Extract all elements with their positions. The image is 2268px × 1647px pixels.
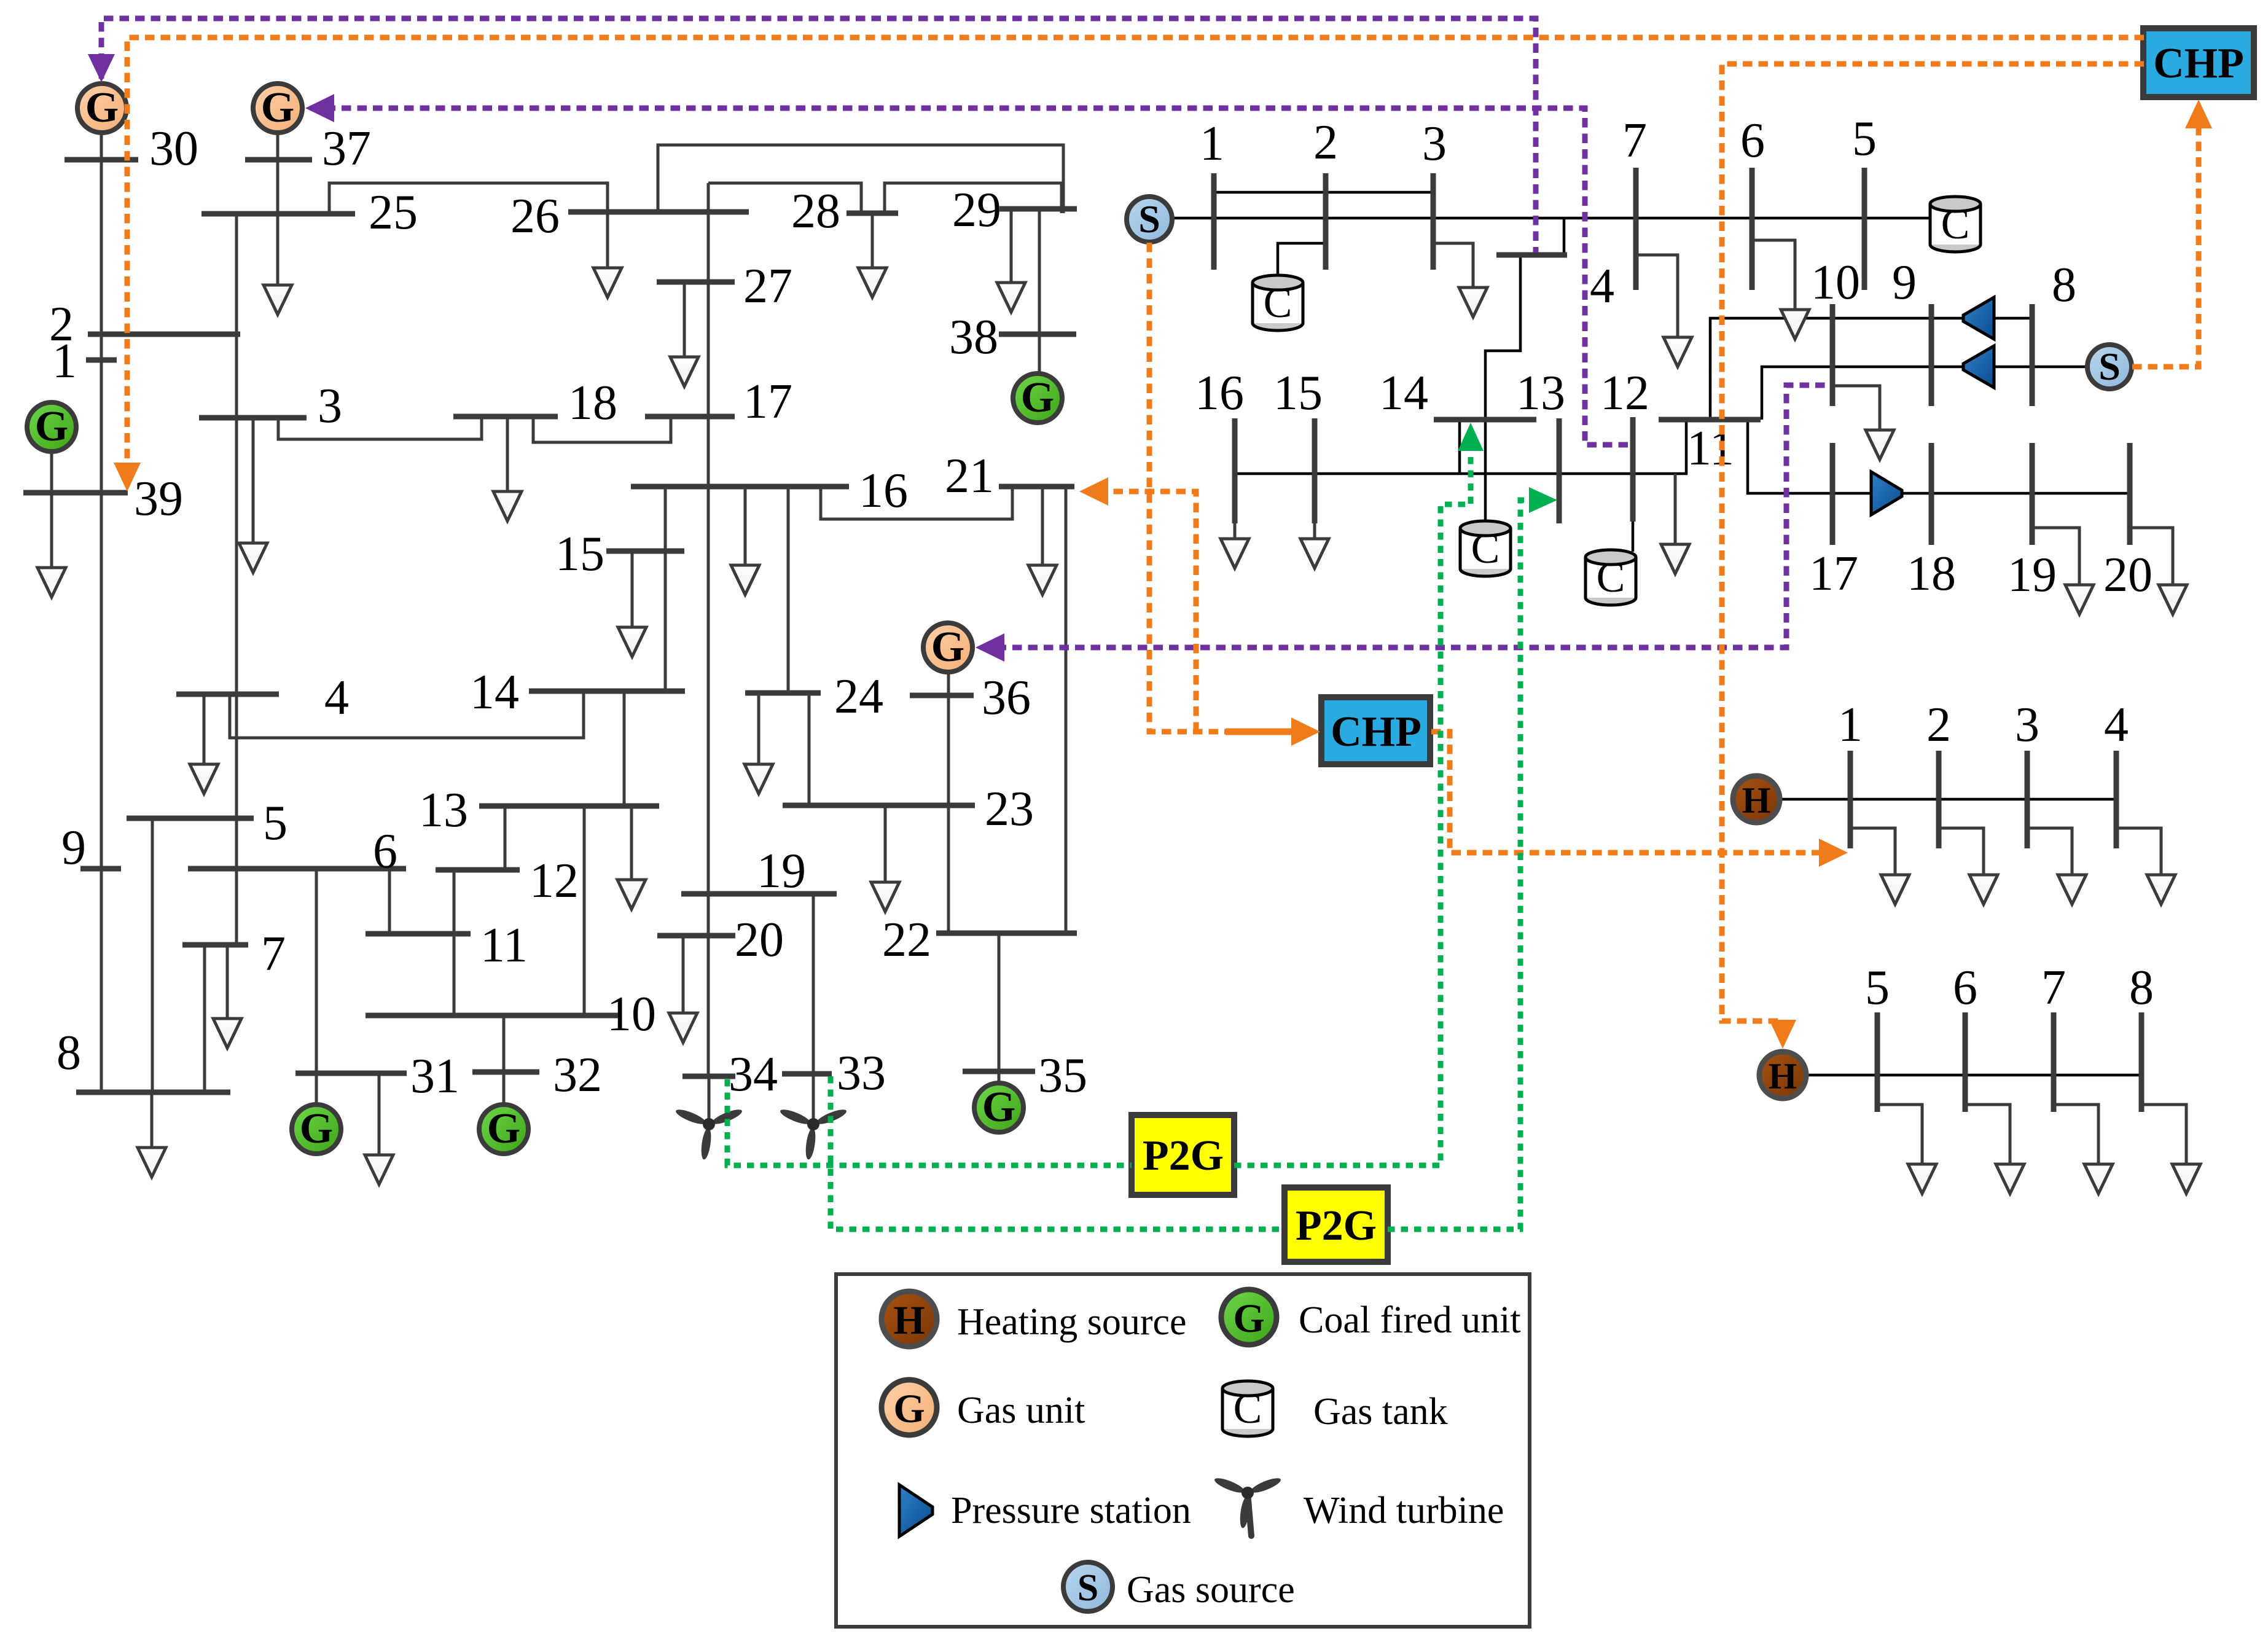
svg-text:S: S — [1138, 197, 1160, 241]
svg-text:18: 18 — [1907, 547, 1956, 601]
wire 16-15-14 — [664, 487, 667, 691]
bus 6 — [188, 866, 406, 872]
purple arrowhead into G36 — [976, 633, 1004, 662]
svg-text:4: 4 — [2104, 698, 2129, 752]
gas tank below node 12 — [1586, 550, 1636, 605]
gas source S1 — [1127, 197, 1172, 242]
wire 6-31 — [315, 869, 318, 1073]
gas node 19 — [2030, 443, 2035, 545]
gas load stub node 6 — [1752, 240, 1795, 310]
load arrowhead bus 15 — [618, 627, 646, 657]
svg-text:35: 35 — [1038, 1049, 1087, 1103]
svg-text:6: 6 — [1953, 961, 1977, 1015]
bus 19 — [681, 891, 837, 897]
CHP box top right — [2143, 28, 2254, 97]
bus 38 — [999, 332, 1076, 337]
purple link gas12 to G37 — [310, 108, 1630, 445]
svg-text:7: 7 — [261, 927, 286, 981]
gas tank right of node 5 — [1930, 197, 1981, 252]
svg-text:G: G — [487, 1105, 520, 1152]
gas load arrowhead node 3 — [1459, 288, 1487, 317]
purple arrowhead into G37 — [305, 94, 334, 122]
gas pipeline 16-15-13-12-11 — [1235, 420, 1686, 474]
wire 35-G35 — [998, 1071, 1001, 1084]
wire 24-23 — [808, 693, 811, 805]
green link P2G to gas14 — [1234, 450, 1471, 1165]
coal fired unit G38 — [1013, 374, 1062, 423]
wire 4-14 — [230, 691, 584, 738]
wire 19-33 — [812, 894, 815, 1074]
heat node 8 — [2139, 1012, 2145, 1112]
svg-text:8: 8 — [2129, 961, 2154, 1015]
heat load arrowhead node 4 — [2147, 875, 2175, 904]
svg-text:8: 8 — [2052, 258, 2076, 312]
svg-text:9: 9 — [1892, 256, 1917, 310]
svg-text:H: H — [1742, 780, 1771, 821]
green link P2G to gas13 — [1388, 500, 1531, 1229]
svg-text:30: 30 — [149, 122, 198, 176]
legend gas tank icon — [1222, 1381, 1273, 1436]
bus 24 — [745, 690, 821, 696]
heat load stub node 7 — [2054, 1105, 2098, 1164]
gas pipeline S-1-2-3-7-6-5-C — [1171, 217, 1930, 220]
gas load arrowhead node 11 — [1661, 544, 1689, 574]
gas pipe 2-tank — [1278, 243, 1326, 278]
load bus 4 — [203, 694, 206, 764]
svg-text:Gas tank: Gas tank — [1313, 1391, 1448, 1433]
heat load stub node 1 — [1850, 828, 1895, 875]
heat node 6 — [1963, 1012, 1968, 1112]
svg-text:14: 14 — [470, 665, 519, 719]
wire 5-8 — [151, 818, 154, 1092]
svg-text:9: 9 — [61, 821, 86, 875]
svg-text:28: 28 — [791, 184, 840, 238]
bus 30 — [65, 157, 138, 163]
svg-text:11: 11 — [480, 918, 528, 972]
wire 13-10 — [583, 806, 586, 1015]
orange link CHP2 to H1 — [1431, 732, 1820, 853]
load bus 29 — [1010, 209, 1013, 283]
green link bus34 to P2G — [727, 1079, 1132, 1165]
green arrowhead into gas14 — [1458, 423, 1484, 451]
legend gas source icon — [1063, 1562, 1112, 1611]
heat node 4 — [2114, 751, 2119, 848]
bus 1 — [86, 358, 117, 363]
orange link S1 to CHP2 — [1149, 243, 1229, 732]
bus 15 — [606, 549, 684, 554]
svg-text:CHP: CHP — [2153, 40, 2244, 87]
load arrowhead bus 26 — [593, 268, 622, 297]
bus 10 — [366, 1013, 620, 1019]
svg-text:G: G — [1233, 1296, 1264, 1341]
load bus 24 — [757, 693, 761, 764]
gas node 3 — [1431, 173, 1436, 270]
legend wind turbine icon — [1213, 1476, 1283, 1536]
svg-text:20: 20 — [2103, 548, 2153, 602]
coal fired unit G31 — [292, 1105, 341, 1154]
svg-text:G: G — [1021, 374, 1054, 421]
wire 25-26 — [329, 183, 608, 214]
svg-text:Heating source: Heating source — [957, 1301, 1187, 1343]
bus 8 — [76, 1090, 230, 1095]
svg-text:G: G — [261, 84, 294, 131]
svg-text:3: 3 — [1422, 117, 1447, 171]
svg-text:S: S — [2098, 345, 2121, 388]
orange arrowhead into CHP2 — [1291, 718, 1320, 746]
bus 21 — [999, 484, 1074, 490]
load bus 18 — [506, 417, 509, 491]
legend heating source icon — [882, 1291, 937, 1347]
svg-text:31: 31 — [410, 1049, 459, 1103]
bus 16 — [631, 484, 849, 490]
svg-text:17: 17 — [1809, 547, 1858, 601]
gas load arrowhead node 20 — [2159, 585, 2187, 614]
svg-text:G: G — [982, 1084, 1015, 1131]
svg-text:21: 21 — [945, 449, 994, 503]
svg-text:2: 2 — [1313, 115, 1338, 170]
heat node 2 — [1936, 751, 1942, 848]
legend box — [836, 1274, 1530, 1627]
wire 6-11 — [388, 869, 391, 934]
svg-text:G: G — [300, 1105, 333, 1152]
wire 16-24 — [787, 487, 790, 693]
load bus 39 — [50, 493, 53, 568]
load bus 21 — [1041, 487, 1044, 565]
svg-text:7: 7 — [1622, 114, 1647, 168]
svg-text:H: H — [1769, 1056, 1797, 1097]
gas pipeline 11-10-9-8-S lower — [1762, 367, 2088, 420]
wire 31-G31 — [315, 1073, 318, 1106]
legend gas unit icon — [882, 1380, 937, 1435]
bus 27 — [657, 280, 735, 285]
load arrowhead bus 20 — [669, 1013, 697, 1043]
bus 14 — [529, 689, 685, 694]
svg-text:S: S — [1077, 1567, 1098, 1609]
svg-text:13: 13 — [1516, 366, 1565, 420]
svg-text:G: G — [893, 1387, 925, 1431]
svg-text:16: 16 — [1195, 366, 1244, 420]
load arrowhead bus 18 — [493, 491, 522, 521]
wire mast wind 34 — [708, 1076, 711, 1122]
gas load stub node 3 — [1433, 243, 1473, 288]
bus 29 — [999, 206, 1077, 212]
gas node 2 — [1323, 173, 1329, 270]
wire 7-8 — [203, 945, 206, 1092]
svg-text:7: 7 — [2041, 961, 2066, 1015]
svg-text:1: 1 — [1838, 698, 1863, 752]
gas load arrowhead node 10 — [1866, 430, 1894, 460]
wire 38-G38 — [1038, 334, 1041, 374]
orange solid segment into CHP2 — [1226, 729, 1292, 735]
bus 28 — [847, 211, 898, 216]
gas load arrowhead node 16 — [1221, 539, 1249, 568]
gas load arrowhead node 6 — [1781, 310, 1809, 339]
gas node 1 — [1211, 173, 1217, 270]
gas pipe 14-tank — [1484, 420, 1487, 523]
load arrowhead bus 24 — [745, 764, 773, 794]
orange link CHP1 to H2 — [1722, 64, 2144, 1021]
pressure station 17-18 — [1871, 472, 1902, 515]
bus 13 — [479, 804, 659, 809]
gas load stub node 7 — [1636, 255, 1678, 337]
gas node 10 — [1830, 304, 1836, 406]
orange link CHP1 to bus39 — [127, 37, 2144, 462]
svg-text:36: 36 — [982, 671, 1031, 725]
svg-text:5: 5 — [1865, 961, 1890, 1015]
load arrowhead bus 13 — [617, 880, 646, 909]
heat load arrowhead node 8 — [2172, 1164, 2200, 1194]
bus 20 — [657, 933, 735, 939]
svg-text:19: 19 — [2008, 548, 2057, 602]
legend pressure station icon — [899, 1485, 933, 1536]
load arrowhead bus 31 — [365, 1155, 393, 1184]
coal fired unit G32 — [479, 1105, 528, 1154]
heating source H1 — [1733, 776, 1780, 823]
orange arrowhead into bus39 — [114, 463, 141, 491]
gas unit G37 — [253, 84, 302, 133]
heat load stub node 8 — [2141, 1105, 2186, 1164]
svg-text:Gas source: Gas source — [1127, 1569, 1295, 1611]
svg-text:Pressure station: Pressure station — [951, 1490, 1191, 1532]
wire 30-2-1-39-9-8 — [100, 133, 103, 1092]
gas load stub node 16 — [1234, 523, 1237, 539]
wire 14-13 — [623, 691, 626, 806]
heat load stub node 5 — [1877, 1105, 1922, 1164]
svg-text:14: 14 — [1379, 366, 1428, 420]
legend coal fired unit icon — [1221, 1289, 1277, 1345]
svg-text:G: G — [35, 403, 68, 450]
gas unit G36 — [923, 623, 972, 672]
gas load arrowhead node 19 — [2065, 585, 2094, 614]
bus 23 — [783, 803, 975, 808]
gas node 17 — [1830, 443, 1836, 545]
gas node 12 — [1630, 417, 1636, 522]
heat load arrowhead node 5 — [1908, 1164, 1936, 1194]
gas node 16 — [1232, 418, 1238, 523]
svg-text:15: 15 — [555, 527, 604, 581]
svg-text:27: 27 — [743, 259, 792, 313]
pressure station 9-8 upper — [1963, 297, 1994, 339]
svg-text:2: 2 — [1926, 698, 1951, 752]
svg-text:24: 24 — [834, 670, 883, 724]
wire 3-18 — [278, 417, 482, 439]
wire 27-28 — [708, 183, 861, 213]
svg-text:P2G: P2G — [1296, 1202, 1377, 1250]
purple link gas10 to G36 — [981, 385, 1829, 647]
svg-text:26: 26 — [510, 189, 560, 243]
wind turbine bus 33 — [779, 1107, 848, 1160]
wire 13-12 — [504, 806, 507, 870]
purple arrowhead into G30 — [88, 54, 115, 82]
wire G39-39 — [50, 450, 53, 493]
svg-text:22: 22 — [882, 913, 931, 967]
load bus 15 — [631, 551, 634, 627]
gas node 18 — [1929, 443, 1934, 545]
svg-text:Coal fired unit: Coal fired unit — [1299, 1299, 1521, 1341]
bus 4 — [176, 692, 279, 697]
svg-text:G: G — [931, 624, 964, 671]
svg-text:20: 20 — [735, 913, 784, 967]
heat load arrowhead node 6 — [1996, 1164, 2024, 1194]
gas load arrowhead node 15 — [1300, 539, 1329, 568]
svg-text:13: 13 — [419, 783, 468, 837]
coal fired unit G39 — [27, 402, 76, 452]
gas node 13 — [1557, 418, 1562, 523]
svg-text:39: 39 — [134, 472, 183, 526]
P2G box lower — [1285, 1187, 1388, 1262]
bus 2 — [88, 332, 240, 337]
bus 17 — [645, 414, 735, 420]
bus 34 — [682, 1074, 735, 1079]
CHP box middle — [1321, 697, 1430, 764]
load bus 7 — [226, 945, 229, 1019]
svg-text:3: 3 — [318, 379, 342, 433]
load arrowhead bus 28 — [858, 268, 886, 297]
gas load stub node 20 — [2130, 528, 2173, 585]
heat load arrowhead node 7 — [2084, 1164, 2113, 1194]
load bus 20 — [682, 936, 685, 1013]
svg-text:P2G: P2G — [1143, 1132, 1224, 1180]
load bus 23 — [884, 805, 887, 882]
load arrowhead bus 39 — [37, 568, 66, 597]
wire mast wind 33 — [812, 1074, 815, 1122]
gas load stub node 15 — [1313, 523, 1316, 539]
bus 7 — [182, 942, 248, 948]
bus 3 — [199, 415, 307, 421]
wire 10-32 — [502, 1015, 506, 1072]
gas node 15 — [1312, 418, 1318, 523]
bus 33 — [782, 1071, 832, 1077]
svg-text:18: 18 — [568, 376, 617, 430]
bus 25 — [201, 211, 355, 217]
gas node 8 — [2030, 304, 2035, 406]
gas pipe drop to node 4 — [1563, 218, 1566, 255]
svg-text:3: 3 — [2015, 698, 2039, 752]
bus 36 — [910, 693, 974, 698]
gas node 9 — [1929, 304, 1934, 406]
bus 32 — [472, 1070, 539, 1075]
wire 32-G32 — [502, 1072, 506, 1106]
gas node 14 — [1434, 417, 1536, 423]
bus 22 — [936, 931, 1077, 936]
gas load stub node 10 — [1832, 386, 1880, 430]
gas pipeline 11-17-18-19-20 — [1748, 420, 2130, 493]
svg-text:6: 6 — [373, 824, 397, 878]
heat load stub node 6 — [1965, 1105, 2010, 1164]
wire G36-36-23-22 — [947, 672, 950, 933]
svg-text:11: 11 — [1687, 421, 1734, 475]
bus 12 — [436, 867, 520, 873]
svg-text:16: 16 — [859, 464, 908, 518]
load bus 8 — [151, 1092, 154, 1148]
gas pipe stub 14 — [1458, 420, 1461, 474]
green arrowhead into gas13 — [1529, 487, 1557, 513]
svg-text:5: 5 — [263, 796, 287, 850]
load bus 28 — [871, 213, 874, 268]
orange link S2 to CHP1 — [2132, 128, 2199, 367]
gas node 6 — [1750, 168, 1755, 290]
wind turbine bus 34 — [675, 1107, 744, 1160]
orange link CHP2 to bus21 — [1107, 491, 1196, 732]
svg-text:5: 5 — [1852, 112, 1877, 166]
bus 11 — [366, 931, 471, 937]
load arrowhead bus 8 — [138, 1148, 166, 1177]
load arrowhead bus 29 — [997, 283, 1025, 312]
svg-text:15: 15 — [1273, 366, 1323, 420]
svg-text:17: 17 — [743, 375, 792, 429]
gas load stub node 11 — [1674, 474, 1677, 544]
load arrowhead bus 21 — [1028, 565, 1057, 595]
wire 29-38 — [1038, 209, 1041, 334]
load arrowhead bus 25 — [264, 285, 292, 315]
purple link gas4 to G30 — [101, 18, 1536, 252]
heat load stub node 2 — [1939, 828, 1984, 875]
load bus 13 — [630, 806, 633, 880]
heat node 1 — [1848, 751, 1853, 848]
bus 39 — [23, 490, 128, 496]
gas pipeline 1-2-3 parallel — [1214, 191, 1433, 194]
load bus 25 — [276, 214, 280, 285]
svg-text:34: 34 — [729, 1047, 778, 1101]
svg-text:CHP: CHP — [1331, 708, 1421, 756]
gas node 11 — [1659, 417, 1761, 423]
svg-text:4: 4 — [1590, 259, 1614, 313]
bus 18 — [453, 414, 558, 420]
wire 28-29 — [885, 183, 1062, 213]
svg-text:23: 23 — [985, 782, 1034, 836]
wire 22-35 — [998, 933, 1001, 1071]
load bus 3 — [252, 418, 255, 543]
orange arrowhead into H2 — [1769, 1020, 1796, 1049]
load arrowhead bus 16 — [731, 565, 759, 595]
gas node 20 — [2127, 443, 2133, 545]
coal fired unit G35 — [974, 1083, 1023, 1132]
gas node 5 — [1862, 168, 1867, 290]
wire 12-11-10 — [453, 870, 456, 1015]
orange arrowhead into bus21 — [1079, 477, 1108, 506]
gas load arrowhead node 7 — [1664, 337, 1692, 367]
svg-text:33: 33 — [837, 1046, 886, 1100]
load arrowhead bus 23 — [871, 882, 899, 912]
wire 25-2-3-4-5-6-7 — [235, 214, 238, 945]
load arrowhead bus 27 — [670, 357, 698, 386]
gas pipe 4-14 — [1485, 255, 1520, 420]
load bus 16 — [744, 487, 747, 565]
gas tank below node 14 — [1460, 521, 1511, 576]
svg-text:10: 10 — [607, 987, 656, 1041]
load arrowhead bus 4 — [190, 764, 218, 794]
bus 37 — [245, 157, 312, 163]
svg-text:19: 19 — [757, 844, 806, 898]
heat node 5 — [1875, 1012, 1880, 1112]
gas source S2 — [2087, 345, 2132, 389]
svg-text:29: 29 — [952, 183, 1001, 237]
gas load stub node 19 — [2032, 528, 2079, 585]
svg-text:1: 1 — [52, 334, 77, 388]
gas pipe 12-tank — [1632, 522, 1635, 552]
wire 21-22 — [1065, 487, 1068, 933]
svg-text:8: 8 — [57, 1026, 81, 1080]
svg-text:H: H — [893, 1298, 925, 1343]
svg-text:Wind turbine: Wind turbine — [1304, 1490, 1504, 1532]
heat load arrowhead node 1 — [1881, 875, 1909, 904]
heat load arrowhead node 2 — [1969, 875, 1998, 904]
gas node 4 — [1496, 252, 1567, 258]
load bus 27 — [683, 282, 686, 357]
svg-text:1: 1 — [1200, 117, 1224, 171]
load arrowhead bus 3 — [239, 543, 267, 573]
load bus 31 — [378, 1073, 381, 1155]
